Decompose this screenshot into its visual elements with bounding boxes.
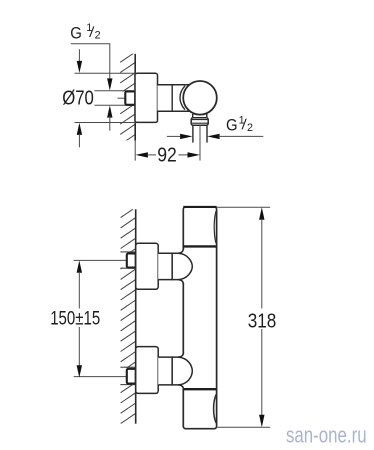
valve body circle: [183, 81, 217, 115]
union nut: [158, 253, 172, 279]
dimension 150+-15 line: [77, 260, 82, 272]
bottom cap edge arc: [214, 394, 217, 423]
hidden nipple lines: [120, 251, 135, 253]
union cone: [172, 253, 192, 279]
cap silhouette arc: [180, 86, 185, 110]
nipple wall-hole gap: [119, 92, 135, 105]
svg-text:G: G: [226, 117, 238, 135]
wall face extension line for 92 dim: [134, 141, 136, 161]
nipple hidden edge lines: [94, 90, 135, 92]
arrow up to nipple bottom: [107, 105, 112, 117]
wall nipple (bold square): [127, 369, 136, 384]
wall face line (bottom view): [135, 209, 137, 423]
union nut divider: [171, 357, 173, 385]
outlet pipe (shower outlet): [192, 125, 194, 142]
svg-text:san-one.ru: san-one.ru: [286, 423, 367, 448]
leader from G1/2 label: [71, 44, 110, 80]
bar top edge (bold): [183, 206, 216, 208]
svg-text:Ø70: Ø70: [62, 87, 94, 109]
G1/2 outlet dim left arrow: [167, 135, 182, 137]
thermostat bar body: [183, 207, 216, 429]
bottom cap separator (bold): [183, 388, 216, 390]
union nut: [158, 357, 172, 385]
leader to nipple center: [74, 376, 128, 378]
svg-text:G: G: [70, 24, 82, 42]
dia 70 extension lines: [75, 72, 136, 74]
white mask over bar left edge: [182, 355, 185, 389]
top cap edge arc: [214, 211, 216, 243]
nipple wall-hole gap: [120, 253, 135, 268]
outlet neck below circle: [192, 114, 194, 118]
svg-text:2: 2: [95, 30, 101, 42]
svg-text:92: 92: [157, 145, 177, 167]
union nut divider: [171, 253, 173, 279]
union cone: [172, 357, 192, 385]
318 extension lines: [217, 206, 271, 208]
fillet to bar (lower): [178, 280, 183, 285]
outlet flange stack: [191, 118, 208, 126]
pipe centerline / extension line: [199, 125, 201, 160]
svg-text:150±15: 150±15: [50, 308, 100, 329]
svg-text:2: 2: [247, 122, 253, 134]
dimension 92 line: [135, 152, 148, 157]
fillet to bar (upper): [178, 248, 183, 253]
wall nipple (bold square): [127, 253, 136, 267]
fillet to bar (lower): [178, 385, 183, 390]
escutcheon (top view): [135, 73, 158, 122]
svg-text:318: 318: [248, 310, 277, 332]
G1/2 outlet dim right arrow: [207, 134, 220, 139]
leader to nipple center: [74, 259, 128, 261]
hidden nipple lines: [120, 366, 135, 368]
wall face line (top view): [134, 54, 136, 141]
fillet to bar (upper): [178, 353, 183, 358]
union escutcheon: [136, 347, 159, 394]
cartridge housing (top view): [158, 85, 191, 112]
dia 70 dimension line lower: [77, 123, 82, 135]
dimension 318 line: [259, 207, 264, 219]
dia 70 dimension line upper: [78, 49, 80, 62]
nipple wall-hole gap: [120, 368, 135, 384]
arrow down to nipple top: [107, 78, 112, 90]
white mask over bar left edge: [182, 250, 185, 284]
top cap separator (bold): [183, 245, 216, 247]
inlet nipple G1/2 (top view, bold square): [125, 91, 135, 104]
union escutcheon: [136, 243, 159, 289]
nipple centerline tick: [118, 97, 125, 99]
